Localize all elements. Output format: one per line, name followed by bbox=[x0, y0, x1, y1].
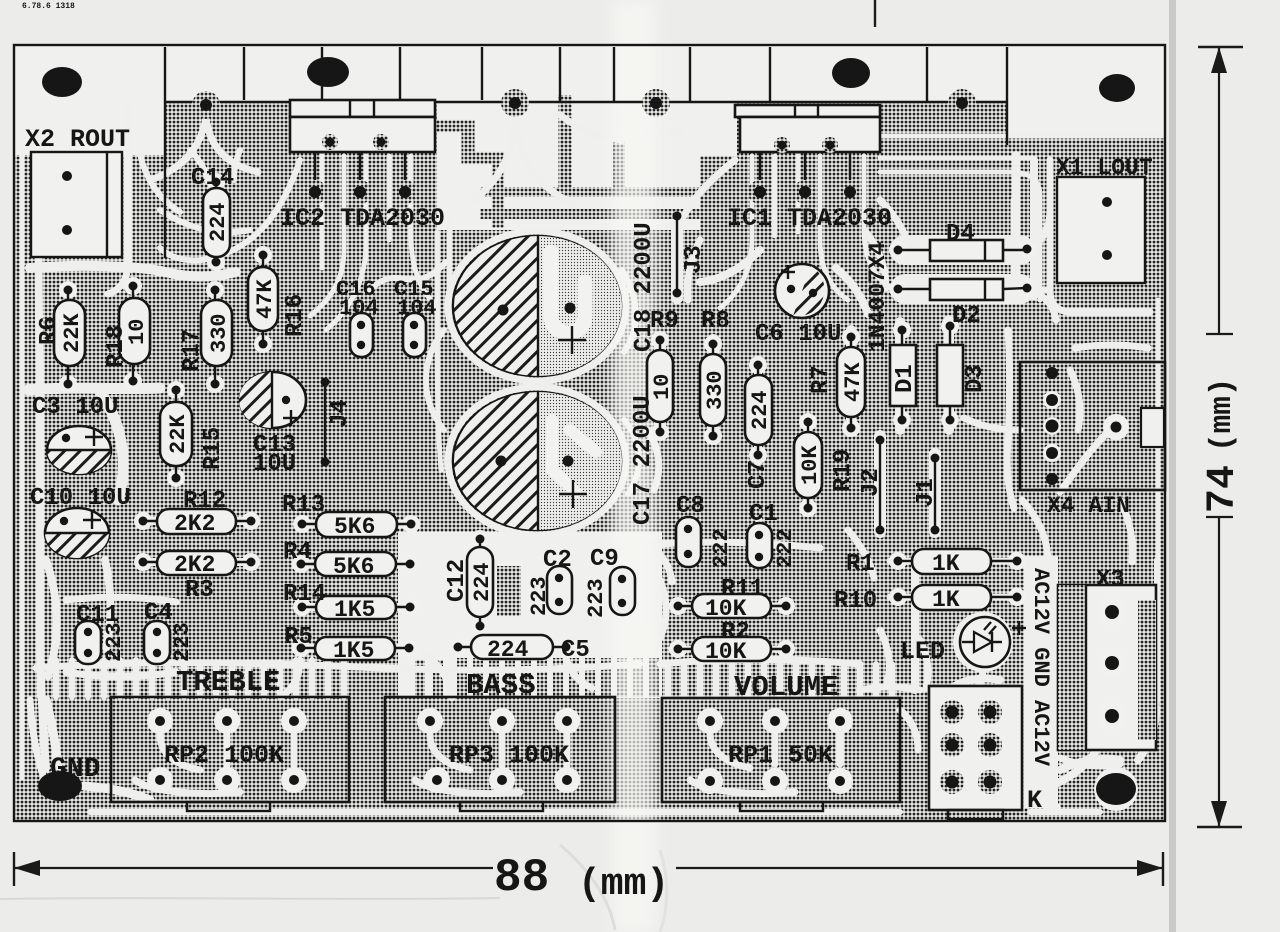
wire channel right margin bbox=[1156, 300, 1161, 700]
wire channels from IC2 pads down bbox=[310, 156, 436, 330]
wire channel strip pad 2 down bbox=[474, 116, 575, 204]
svg-text:224: 224 bbox=[206, 202, 231, 242]
svg-text:104: 104 bbox=[339, 296, 379, 321]
wire channel left of R11 bbox=[648, 560, 666, 638]
terminal strip divider wires bbox=[165, 47, 1007, 258]
svg-text:IC1 TDA2030: IC1 TDA2030 bbox=[727, 204, 892, 233]
svg-text:22K: 22K bbox=[166, 414, 191, 454]
wire channel D2 to X1 bbox=[1030, 210, 1056, 320]
white blob around D4 D2 bbox=[905, 250, 1020, 289]
svg-text:1N4007X4: 1N4007X4 bbox=[865, 241, 891, 352]
wire channel X4 surround bbox=[1007, 330, 1148, 508]
svg-text:10: 10 bbox=[650, 374, 675, 400]
wire channel upper mid between ICs bbox=[560, 115, 680, 140]
wire channels inside RP1 bbox=[690, 733, 840, 794]
top-right terminal cell white bbox=[1007, 45, 1165, 137]
board outline bbox=[14, 45, 1165, 821]
wire channel below X3 bbox=[1060, 758, 1120, 766]
svg-text:330: 330 bbox=[703, 370, 728, 410]
svg-text:C12: C12 bbox=[444, 559, 471, 602]
capacitor C10 bbox=[45, 508, 109, 558]
LED bbox=[960, 617, 1026, 667]
svg-text:R13: R13 bbox=[282, 492, 325, 519]
wire channel top right horizontal bbox=[845, 136, 1162, 300]
diode D3 bbox=[937, 317, 963, 429]
capacitor C4 bbox=[144, 621, 170, 664]
resistor R18 bbox=[119, 277, 150, 390]
pad top-left black bbox=[42, 67, 82, 97]
svg-text:R9: R9 bbox=[650, 308, 679, 335]
svg-text:RP1 50K: RP1 50K bbox=[728, 741, 833, 770]
paper crease bottom margin bbox=[0, 898, 500, 899]
wire channel R11 R2 C8 C1 bbox=[650, 520, 820, 649]
wire channels left of big caps bbox=[437, 214, 449, 470]
svg-text:R6: R6 bbox=[36, 316, 63, 345]
resistor R7 bbox=[837, 328, 865, 437]
svg-text:R17: R17 bbox=[179, 329, 206, 372]
resistor R2 bbox=[669, 637, 795, 661]
svg-text:J2: J2 bbox=[858, 468, 885, 497]
capacitor C2 bbox=[547, 566, 572, 614]
wire channel R1 R10 bbox=[848, 530, 1020, 597]
svg-text:C17 2200U: C17 2200U bbox=[630, 395, 657, 525]
svg-text:223: 223 bbox=[527, 576, 552, 616]
connector X1 bbox=[1057, 177, 1145, 283]
wire channel between caps and R rows bbox=[370, 262, 446, 430]
pad top gray 1 bbox=[192, 91, 220, 119]
diode D4 bbox=[889, 240, 1036, 261]
pad GND black oval bbox=[38, 771, 82, 801]
capacitor C8 bbox=[676, 517, 701, 567]
svg-text:6.78.6 1318: 6.78.6 1318 bbox=[22, 2, 75, 11]
resistor R14 bbox=[293, 596, 419, 619]
connector 6-pin power header bbox=[929, 686, 1022, 819]
svg-text:D1: D1 bbox=[892, 364, 919, 393]
resistor R13 bbox=[293, 512, 420, 537]
wire channel D1 D3 region bbox=[851, 320, 949, 432]
potentiometer RP1 50K bbox=[662, 698, 900, 811]
paper crease center bbox=[612, 0, 656, 932]
op-amp IC2 TDA2030 bbox=[290, 100, 435, 204]
diode D2 bbox=[889, 279, 1036, 300]
svg-text:J1: J1 bbox=[913, 478, 940, 507]
svg-text:22K: 22K bbox=[60, 313, 85, 353]
wire channel left edge bottom bbox=[30, 700, 44, 778]
resistor R8 bbox=[700, 335, 726, 445]
connector X2 bbox=[31, 152, 122, 257]
pad top gray 4 bbox=[948, 89, 976, 117]
wire channels left of X1 bbox=[1016, 155, 1034, 300]
wire channel under C7 R19 bbox=[758, 360, 808, 512]
wire channel C5 down bbox=[566, 658, 592, 688]
wire channel below X4 bbox=[1022, 500, 1133, 562]
wire channel J2 J1 bbox=[880, 436, 935, 532]
resistor R6 bbox=[54, 281, 85, 393]
svg-text:104: 104 bbox=[397, 296, 437, 321]
svg-text:223: 223 bbox=[170, 622, 195, 662]
svg-text:1K5: 1K5 bbox=[333, 638, 374, 664]
wire channel R5 to BASS bbox=[282, 650, 452, 698]
white region C12-C5 block bbox=[398, 532, 662, 698]
copper pour patch below IC1-left bbox=[700, 156, 737, 230]
wire channel R12-R5 rows left ends bbox=[140, 521, 414, 648]
paper right edge shading bbox=[1169, 0, 1176, 932]
svg-text:224: 224 bbox=[487, 637, 529, 663]
terminal strip bottom edge bbox=[165, 101, 1007, 103]
white halo LED bbox=[953, 612, 1013, 672]
svg-text:J4: J4 bbox=[327, 399, 354, 428]
svg-text:X2 ROUT: X2 ROUT bbox=[25, 125, 130, 154]
svg-text:K: K bbox=[1027, 786, 1042, 815]
jumper wire J3 bbox=[673, 212, 682, 298]
jumper wire J2 bbox=[876, 436, 885, 535]
resistor R11 bbox=[669, 594, 795, 618]
svg-text:J3: J3 bbox=[681, 245, 708, 274]
wire channel center J3 R9 R8 bbox=[660, 210, 713, 436]
pad top gray 2 bbox=[501, 89, 529, 117]
wire channels inside RP2 bbox=[135, 735, 294, 794]
svg-text:224: 224 bbox=[748, 390, 773, 430]
svg-text:222: 222 bbox=[773, 528, 798, 568]
top terminal strip white area bbox=[14, 45, 1165, 102]
svg-text:C4: C4 bbox=[144, 600, 173, 627]
wire channel GND area bbox=[46, 700, 150, 800]
potentiometer RP3 100K bbox=[385, 697, 615, 811]
wire channel board edge clearance bbox=[20, 155, 25, 778]
svg-text:C2: C2 bbox=[543, 547, 572, 574]
wire channel X2 to R6 row bbox=[30, 266, 236, 277]
wire channel strip pad 1 down bbox=[150, 118, 258, 180]
svg-text:10K: 10K bbox=[705, 639, 747, 665]
wire channel below R6 row bbox=[28, 388, 160, 500]
svg-text:10: 10 bbox=[125, 319, 150, 345]
resistor R5 bbox=[292, 637, 418, 660]
svg-text:10K: 10K bbox=[798, 445, 823, 485]
resistor R10 bbox=[889, 585, 1026, 610]
svg-text:C14: C14 bbox=[191, 165, 234, 192]
pad top-right black bbox=[1099, 74, 1135, 102]
trace vertical from strip bbox=[559, 95, 572, 187]
svg-text:(mm): (mm) bbox=[578, 863, 669, 906]
capacitor C9 bbox=[610, 567, 635, 615]
svg-text:R5: R5 bbox=[284, 624, 313, 651]
capacitor C11 bbox=[75, 621, 101, 664]
wire channel around X1 bbox=[1014, 160, 1150, 312]
svg-text:330: 330 bbox=[207, 313, 232, 353]
trace horizontal pair to IC1 bbox=[480, 192, 737, 214]
resistor R19 bbox=[794, 413, 822, 517]
svg-text:(mm): (mm) bbox=[1205, 378, 1240, 452]
capacitor C13 bbox=[239, 372, 306, 428]
wire gaps to TREBLE pot bbox=[40, 660, 344, 697]
pad top black 2 bbox=[307, 57, 349, 87]
svg-text:TREBLE: TREBLE bbox=[176, 666, 280, 699]
resistor R3 bbox=[134, 551, 260, 575]
wire channel IC2 area slant bbox=[160, 160, 300, 260]
wire channel upper-left diagonals bbox=[140, 154, 250, 232]
svg-text:R15: R15 bbox=[200, 427, 227, 470]
svg-text:74: 74 bbox=[1201, 465, 1246, 513]
svg-text:BASS: BASS bbox=[466, 669, 536, 702]
svg-text:RP2 100K: RP2 100K bbox=[164, 741, 284, 770]
resistor R17 bbox=[201, 281, 232, 393]
capacitor C7 bbox=[745, 356, 772, 464]
svg-text:5K6: 5K6 bbox=[333, 554, 374, 580]
svg-text:X4 AIN: X4 AIN bbox=[1047, 493, 1130, 519]
svg-text:1K5: 1K5 bbox=[334, 597, 375, 623]
svg-text:2K2: 2K2 bbox=[174, 511, 215, 537]
svg-text:X3: X3 bbox=[1096, 567, 1125, 594]
wire channel C12 C2 C9 C5 bbox=[456, 534, 622, 647]
capacitor C5 bbox=[449, 635, 575, 659]
wire channel bottom margin bbox=[90, 809, 1100, 815]
wire channel X4 entry bbox=[964, 370, 1106, 492]
wire channel X3 right edge bbox=[1126, 560, 1157, 748]
wire channel C6 region bbox=[700, 250, 868, 314]
wire channels from IC1 pads down bbox=[720, 156, 894, 308]
resistor R15 bbox=[160, 381, 192, 487]
wire channel right of X2 bbox=[108, 105, 128, 294]
svg-text:88: 88 bbox=[494, 852, 549, 904]
capacitor C16 bbox=[350, 313, 373, 357]
wire channel VOLUME area bbox=[660, 630, 889, 686]
svg-text:GND: GND bbox=[50, 754, 100, 785]
svg-text:D4: D4 bbox=[946, 221, 975, 248]
svg-text:IC2 TDA2030: IC2 TDA2030 bbox=[280, 204, 445, 233]
white area right of IC2 bbox=[437, 103, 737, 230]
white ring big cap C18 bbox=[448, 231, 626, 381]
pad bottom-right black oval bbox=[1094, 767, 1138, 811]
svg-text:224: 224 bbox=[470, 562, 495, 602]
scan artifact vertical line top bbox=[874, 0, 876, 27]
capacitor C1 bbox=[747, 523, 772, 568]
svg-text:C1: C1 bbox=[749, 501, 778, 528]
resistor R16 bbox=[248, 246, 278, 353]
jumper wire J4 bbox=[321, 378, 330, 467]
wire channel 6pin region bbox=[915, 560, 1120, 770]
trace stripes to BASS pot bbox=[420, 658, 654, 697]
white ring big cap C17 bbox=[448, 387, 626, 535]
wire channel above TREBLE row bbox=[36, 663, 640, 670]
capacitor C6 bbox=[775, 264, 829, 318]
svg-text:C10 10U: C10 10U bbox=[30, 485, 131, 512]
svg-text:222: 222 bbox=[709, 528, 734, 568]
op-amp IC1 TDA2030 bbox=[735, 105, 880, 204]
svg-text:D3: D3 bbox=[962, 364, 989, 393]
wire channel IC1 to J3 bbox=[680, 160, 735, 300]
svg-text:R4: R4 bbox=[283, 539, 312, 566]
capacitor C14 bbox=[203, 173, 230, 271]
wire channel bottom-left S curves bbox=[46, 560, 110, 676]
trace vertical 2 bbox=[613, 140, 625, 187]
wire channels inside RP3 bbox=[415, 735, 567, 794]
svg-text:X1 LOUT: X1 LOUT bbox=[1056, 155, 1153, 181]
svg-text:R19: R19 bbox=[830, 449, 857, 492]
capacitor C15 bbox=[403, 313, 426, 357]
wire channel around C11 C4 bbox=[66, 597, 176, 676]
svg-text:47K: 47K bbox=[841, 362, 866, 402]
svg-text:1K: 1K bbox=[932, 551, 960, 577]
connector X4 bbox=[1020, 362, 1165, 490]
svg-text:R3: R3 bbox=[185, 577, 214, 604]
wire channels bottom right corner bbox=[1040, 708, 1156, 790]
svg-text:223: 223 bbox=[584, 578, 609, 618]
dimension line bottom 88mm bbox=[14, 852, 1163, 886]
wire channel C14 area bbox=[190, 150, 240, 182]
svg-text:LED: LED bbox=[900, 637, 945, 666]
wire channel left margin bbox=[39, 158, 46, 768]
pad top gray 3 bbox=[642, 89, 670, 117]
copper patch between C12 and C2 bbox=[497, 566, 521, 616]
svg-text:R14: R14 bbox=[283, 581, 326, 608]
potentiometer RP2 100K bbox=[111, 697, 349, 811]
wire channel below LED bbox=[920, 640, 983, 704]
PCB board copper pour bbox=[14, 45, 1165, 821]
svg-text:1K: 1K bbox=[932, 587, 960, 613]
jumper wire J1 bbox=[931, 454, 940, 535]
svg-text:C3 10U: C3 10U bbox=[32, 394, 118, 421]
svg-text:C5: C5 bbox=[561, 637, 590, 664]
trace IC2 output staircase bbox=[437, 126, 498, 228]
pad top black 3 bbox=[832, 58, 870, 88]
svg-text:R8: R8 bbox=[701, 308, 730, 335]
capacitor C3 bbox=[47, 426, 111, 474]
resistor R4 bbox=[292, 552, 419, 576]
connector X3 bbox=[1058, 585, 1156, 750]
svg-text:C9: C9 bbox=[590, 546, 619, 573]
dimension line right 74mm bbox=[1197, 47, 1243, 827]
capacitor C12 bbox=[467, 530, 493, 635]
wire channel mid right of caps bbox=[640, 430, 672, 582]
electrolytic capacitor C18 2200U bbox=[453, 236, 622, 376]
svg-text:C7: C7 bbox=[745, 460, 772, 489]
svg-text:223: 223 bbox=[102, 622, 127, 662]
svg-text:R10: R10 bbox=[834, 588, 877, 615]
svg-text:RP3 100K: RP3 100K bbox=[449, 741, 569, 770]
wire channel RP1 to 6pin bbox=[860, 687, 920, 750]
svg-text:R1: R1 bbox=[846, 551, 875, 578]
top-left terminal cell white bbox=[14, 45, 165, 155]
diode D1 bbox=[890, 321, 916, 429]
svg-text:47K: 47K bbox=[253, 279, 278, 319]
wire channel right of caps bbox=[622, 270, 639, 494]
svg-text:5K6: 5K6 bbox=[334, 514, 375, 540]
wire channel right of IC1 bbox=[866, 200, 912, 288]
electrolytic capacitor C17 2200U bbox=[453, 392, 622, 530]
wire gaps to VOLUME pot bbox=[668, 664, 892, 697]
resistor R12 bbox=[134, 509, 260, 534]
wire channel left of X3 bbox=[1024, 556, 1058, 808]
svg-text:VOLUME: VOLUME bbox=[734, 671, 838, 704]
svg-text:D2: D2 bbox=[952, 303, 981, 330]
svg-text:C6 10U: C6 10U bbox=[755, 321, 841, 348]
resistor R9 bbox=[647, 331, 673, 441]
svg-text:C8: C8 bbox=[676, 493, 705, 520]
svg-text:R16: R16 bbox=[282, 294, 309, 337]
svg-text:2K2: 2K2 bbox=[174, 552, 215, 578]
svg-text:AC12V GND AC12V: AC12V GND AC12V bbox=[1028, 568, 1053, 767]
resistor R1 bbox=[889, 549, 1026, 574]
svg-text:10U: 10U bbox=[253, 451, 296, 478]
svg-text:R7: R7 bbox=[808, 365, 835, 394]
